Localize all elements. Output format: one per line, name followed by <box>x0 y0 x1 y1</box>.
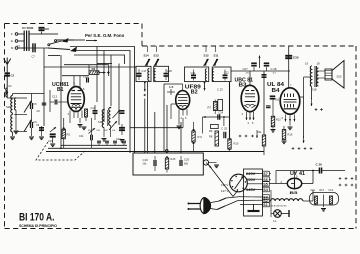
svg-text:R17: R17 <box>320 189 325 192</box>
svg-text:S16: S16 <box>98 120 103 124</box>
svg-text:R10: R10 <box>234 142 239 146</box>
svg-text:R11: R11 <box>257 130 262 134</box>
svg-text:18: 18 <box>317 62 321 66</box>
svg-text:C12: C12 <box>52 95 58 99</box>
svg-text:S1: S1 <box>263 203 267 207</box>
svg-text:R9: R9 <box>209 129 213 133</box>
svg-text:R13: R13 <box>275 100 280 102</box>
svg-text:C20: C20 <box>184 158 190 162</box>
svg-text:Per S.E. O.M. Fono: Per S.E. O.M. Fono <box>85 33 125 38</box>
svg-text:BI 170 A.: BI 170 A. <box>19 212 55 224</box>
svg-text:S7: S7 <box>263 172 267 176</box>
svg-text:R2: R2 <box>67 133 71 137</box>
svg-text:B4: B4 <box>272 88 280 94</box>
svg-text:R 6: R 6 <box>198 135 203 139</box>
svg-text:S4: S4 <box>263 188 267 192</box>
svg-text:C7: C7 <box>32 55 36 59</box>
svg-text:B2: B2 <box>191 90 198 96</box>
svg-text:R7: R7 <box>208 105 212 109</box>
svg-text:112 V: 112 V <box>221 183 228 187</box>
svg-text:S11: S11 <box>214 54 219 58</box>
svg-text:600: 600 <box>184 163 189 166</box>
svg-text:C30: C30 <box>293 56 299 60</box>
svg-text:C 28: C 28 <box>271 67 277 71</box>
svg-text:F: F <box>11 32 13 36</box>
svg-text:S5: S5 <box>263 182 267 186</box>
svg-text:R16: R16 <box>288 133 293 137</box>
svg-text:C27: C27 <box>243 67 249 71</box>
svg-text:C11: C11 <box>79 134 84 138</box>
svg-text:C17: C17 <box>142 69 147 73</box>
svg-text:C 25: C 25 <box>221 126 227 130</box>
svg-text:S13: S13 <box>154 54 160 58</box>
svg-text:C13: C13 <box>83 74 88 78</box>
svg-text:S12: S12 <box>204 54 210 58</box>
svg-text:S14: S14 <box>144 54 150 58</box>
svg-text:R15: R15 <box>171 157 176 161</box>
svg-text:UY 41: UY 41 <box>290 171 305 177</box>
svg-text:C1 5000: C1 5000 <box>22 26 34 30</box>
svg-text:E: E <box>11 39 13 43</box>
svg-text:S23: S23 <box>337 75 342 79</box>
svg-text:C18: C18 <box>167 69 172 73</box>
svg-text:C12: C12 <box>329 189 334 192</box>
svg-text:C3: C3 <box>11 74 15 78</box>
svg-text:B5 B4 B2 B1 B3: B5 B4 B2 B1 B3 <box>271 206 288 208</box>
svg-text:R12: R12 <box>276 119 281 122</box>
svg-text:1-5: 1-5 <box>169 85 174 89</box>
svg-text:127 V: 127 V <box>221 189 229 193</box>
svg-text:SCHEMA DI PRINCIPIO: SCHEMA DI PRINCIPIO <box>19 224 57 228</box>
svg-text:C4: C4 <box>8 84 12 88</box>
svg-text:R8: R8 <box>209 135 213 139</box>
svg-text:L1: L1 <box>274 219 278 223</box>
svg-text:C 23: C 23 <box>217 88 223 92</box>
svg-text:C24: C24 <box>218 111 223 115</box>
svg-text:C22: C22 <box>224 70 229 74</box>
svg-text:B1: B1 <box>57 87 64 93</box>
svg-text:S18: S18 <box>312 88 317 92</box>
svg-text:C 26: C 26 <box>316 163 323 167</box>
svg-text:B5: B5 <box>290 190 299 195</box>
svg-text:C19: C19 <box>143 158 149 162</box>
svg-text:C11: C11 <box>311 189 316 192</box>
svg-text:19: 19 <box>305 62 309 66</box>
